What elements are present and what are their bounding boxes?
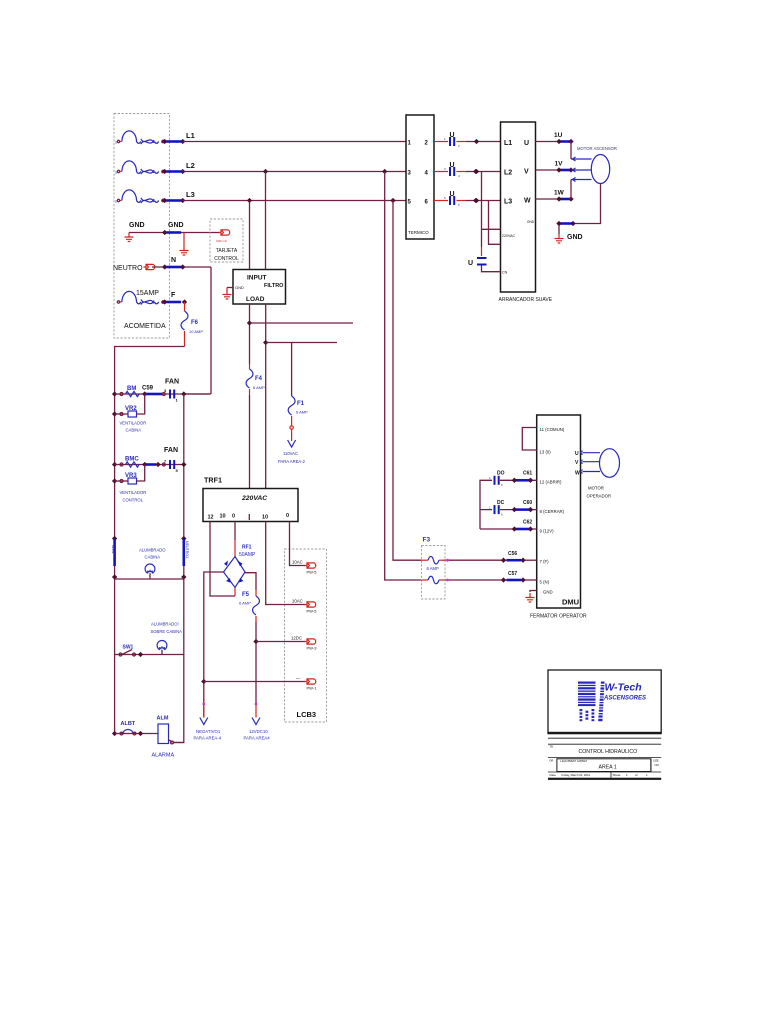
- svg-text:TERMICO: TERMICO: [408, 230, 429, 235]
- svg-text:0: 0: [286, 513, 289, 519]
- svg-text:RF1: RF1: [242, 545, 252, 551]
- svg-text:GND: GND: [567, 234, 583, 241]
- svg-text:12VDC10: 12VDC10: [249, 729, 268, 734]
- svg-text:ALBT: ALBT: [121, 721, 136, 727]
- svg-text:1U: 1U: [554, 132, 563, 139]
- svg-text:L2: L2: [504, 170, 512, 177]
- svg-text:MOTOR: MOTOR: [588, 486, 604, 491]
- svg-text:ACOMETIDA: ACOMETIDA: [124, 323, 166, 330]
- svg-text:ALB1: ALB1: [111, 545, 115, 554]
- svg-text:D+: D+: [115, 171, 119, 175]
- svg-text:10 AMP: 10 AMP: [189, 329, 203, 334]
- svg-text:PARA AREA4: PARA AREA4: [244, 736, 271, 741]
- svg-text:SW1: SW1: [123, 645, 134, 651]
- svg-text:220VAC: 220VAC: [241, 495, 267, 502]
- svg-text:U: U: [450, 162, 455, 169]
- svg-text:PW-1: PW-1: [307, 686, 318, 691]
- svg-text:NO: NO: [655, 763, 660, 767]
- svg-text:9 (12V): 9 (12V): [540, 529, 555, 534]
- svg-text:6 AMP: 6 AMP: [296, 410, 308, 415]
- svg-text:ALUMBRADO!: ALUMBRADO!: [151, 622, 179, 627]
- svg-text:ALUMBRADO: ALUMBRADO: [139, 548, 166, 553]
- svg-text:BM: BM: [127, 386, 136, 392]
- svg-text:INPUT: INPUT: [247, 275, 267, 282]
- svg-text:6 AMP: 6 AMP: [253, 385, 265, 390]
- svg-text:PW-5: PW-5: [307, 570, 318, 575]
- svg-text:12DC: 12DC: [291, 636, 302, 641]
- svg-text:1W: 1W: [554, 190, 565, 197]
- svg-text:Sheet: Sheet: [613, 773, 621, 777]
- svg-text:VENTILADOR: VENTILADOR: [120, 490, 147, 495]
- svg-text:10: 10: [262, 515, 268, 521]
- svg-text:PARA AREA-4: PARA AREA-4: [194, 736, 222, 741]
- svg-text:12: 12: [208, 515, 214, 521]
- svg-text:N: N: [171, 257, 176, 264]
- svg-text:VENTILADOR: VENTILADOR: [120, 421, 147, 426]
- svg-text:MOTOR ASCENSOR: MOTOR ASCENSOR: [577, 146, 617, 151]
- svg-text:L1: L1: [504, 140, 512, 147]
- svg-text:6 AMP: 6 AMP: [239, 601, 251, 606]
- svg-text:12 (ABRIR): 12 (ABRIR): [540, 480, 563, 485]
- svg-text:V: V: [524, 169, 529, 176]
- svg-text:D+: D+: [115, 141, 119, 145]
- svg-text:FERMATOR OPERATOR: FERMATOR OPERATOR: [530, 614, 587, 620]
- svg-text:SIZE: SIZE: [653, 759, 659, 763]
- svg-text:F1: F1: [297, 401, 305, 407]
- svg-text:—: —: [296, 676, 301, 681]
- svg-text:CONTROL: CONTROL: [214, 256, 239, 262]
- svg-text:D+: D+: [115, 200, 119, 204]
- svg-text:7 (F): 7 (F): [540, 559, 550, 564]
- svg-text:C60: C60: [523, 500, 532, 506]
- svg-text:DR: DR: [550, 759, 554, 763]
- svg-text:SOBRE CABINA: SOBRE CABINA: [151, 629, 183, 634]
- svg-text:11 (COMUN): 11 (COMUN): [540, 427, 565, 432]
- svg-text:GND: GND: [168, 222, 184, 229]
- svg-text:GND: GND: [527, 220, 535, 224]
- svg-text:L3: L3: [504, 199, 512, 206]
- svg-text:DO: DO: [497, 471, 505, 477]
- svg-text:C57: C57: [508, 571, 517, 577]
- svg-text:10AC: 10AC: [292, 599, 303, 604]
- svg-text:5 (N): 5 (N): [540, 580, 550, 585]
- svg-text:U: U: [575, 451, 579, 457]
- svg-text:of: of: [635, 773, 638, 777]
- svg-text:F6: F6: [191, 320, 199, 326]
- svg-text:VR3: VR3: [125, 473, 137, 479]
- svg-text:W: W: [575, 471, 580, 477]
- svg-text:U: U: [450, 191, 455, 198]
- svg-text:50AMP: 50AMP: [239, 552, 256, 558]
- svg-text:VR2: VR2: [125, 406, 137, 412]
- svg-text:LOAD: LOAD: [246, 296, 265, 303]
- svg-text:ARRANCADOR SUAVE: ARRANCADOR SUAVE: [499, 297, 553, 303]
- svg-text:6 AMP: 6 AMP: [427, 566, 440, 571]
- svg-text:CONTROL: CONTROL: [123, 498, 144, 503]
- svg-text:CABINA: CABINA: [126, 428, 142, 433]
- svg-text:NEUTRO1: NEUTRO1: [185, 541, 189, 558]
- svg-text:BMC: BMC: [125, 457, 139, 463]
- svg-text:ASCENSORES: ASCENSORES: [603, 695, 646, 701]
- svg-text:TRF1: TRF1: [204, 476, 222, 485]
- svg-text:U: U: [468, 260, 473, 267]
- svg-text:C61: C61: [523, 471, 532, 477]
- svg-text:CONTROL HIDRAULICO: CONTROL HIDRAULICO: [579, 749, 638, 755]
- svg-text:C56: C56: [508, 551, 517, 557]
- svg-text:0: 0: [232, 514, 235, 520]
- svg-text:L.EQUIPMENT CABINET: L.EQUIPMENT CABINET: [560, 760, 588, 763]
- svg-text:Date: Date: [550, 773, 557, 777]
- svg-text:CNF-10: CNF-10: [216, 239, 227, 243]
- svg-text:PARA AREA-2: PARA AREA-2: [278, 459, 306, 464]
- svg-text:W-Tech: W-Tech: [605, 682, 642, 694]
- svg-text:FAN: FAN: [165, 379, 179, 386]
- svg-text:GND: GND: [129, 222, 145, 229]
- svg-text:F4: F4: [255, 376, 263, 382]
- svg-text:1V: 1V: [555, 161, 564, 168]
- svg-text:F5: F5: [242, 592, 250, 598]
- svg-text:L3: L3: [186, 190, 195, 199]
- svg-text:OPERADOR: OPERADOR: [587, 494, 612, 499]
- svg-text:CN: CN: [502, 271, 508, 275]
- svg-text:10: 10: [220, 514, 226, 520]
- svg-text:DC: DC: [497, 500, 505, 506]
- svg-text:L2: L2: [186, 161, 195, 170]
- svg-text:C59: C59: [142, 386, 154, 392]
- svg-text:LCB3: LCB3: [297, 710, 317, 719]
- svg-text:F3: F3: [423, 537, 431, 544]
- svg-text:W: W: [524, 198, 531, 205]
- svg-text:ALARMA: ALARMA: [152, 753, 175, 759]
- svg-text:FILTRO: FILTRO: [264, 283, 284, 289]
- svg-text:10AC: 10AC: [292, 560, 303, 565]
- svg-text:FAN: FAN: [164, 447, 178, 454]
- svg-text:Friday, March 02, 2012: Friday, March 02, 2012: [562, 773, 591, 777]
- svg-text:U: U: [450, 132, 455, 139]
- svg-text:CABINA: CABINA: [145, 555, 161, 560]
- svg-text:DMU: DMU: [562, 598, 579, 607]
- svg-text:TARJETA: TARJETA: [216, 248, 238, 254]
- svg-text:AREA 1: AREA 1: [599, 765, 617, 771]
- svg-text:ALM: ALM: [157, 716, 169, 722]
- svg-text:TB: TB: [550, 745, 554, 749]
- svg-text:C62: C62: [523, 520, 532, 526]
- svg-text:NEGATIVO1: NEGATIVO1: [196, 729, 221, 734]
- svg-text:110VAC: 110VAC: [283, 451, 298, 456]
- svg-text:GND: GND: [235, 285, 244, 290]
- svg-text:8 (CERRAR): 8 (CERRAR): [540, 509, 565, 514]
- svg-text:13 (0): 13 (0): [540, 450, 552, 455]
- svg-text:L1: L1: [186, 131, 195, 140]
- svg-text:PW-3: PW-3: [307, 646, 318, 651]
- svg-text:PW-5: PW-5: [307, 609, 318, 614]
- svg-text:U: U: [524, 140, 529, 147]
- svg-text:220VAC: 220VAC: [502, 234, 516, 238]
- svg-text:15AMP: 15AMP: [136, 290, 159, 297]
- svg-text:GND: GND: [543, 590, 553, 595]
- svg-text:NEUTRO: NEUTRO: [113, 265, 143, 272]
- svg-text:F: F: [171, 292, 176, 299]
